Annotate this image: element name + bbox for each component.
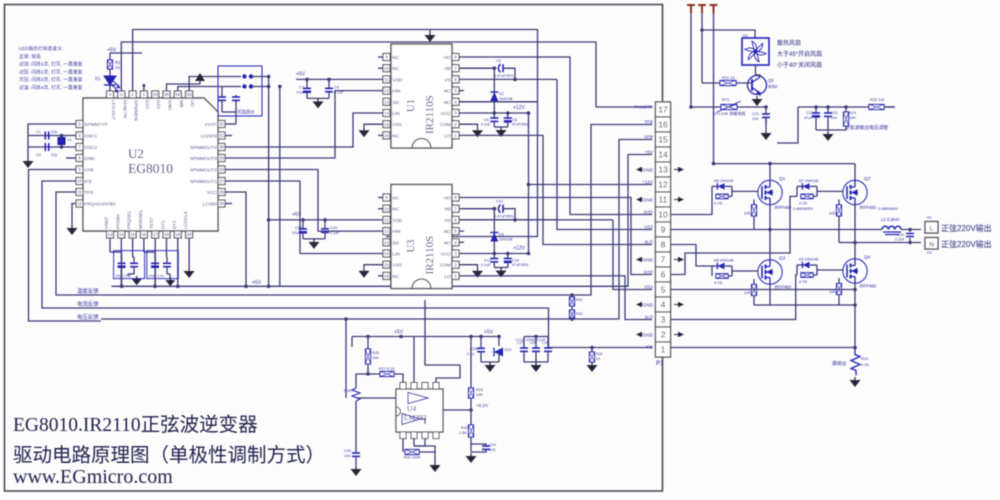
- wire U3 VB: [459, 208, 494, 210]
- capacitor C10 bootstrap 0.47uF: [494, 208, 496, 210]
- svg-text:COM: COM: [440, 263, 451, 268]
- svg-text:4.7Ω: 4.7Ω: [799, 280, 807, 284]
- svg-text:14: 14: [658, 150, 668, 160]
- svg-text:2HO: 2HO: [644, 209, 654, 214]
- connector P1 pin 16 TFB: [656, 117, 671, 132]
- svg-text:C1: C1: [36, 130, 41, 134]
- wire IFB to shunt: [671, 347, 855, 349]
- capacitor box B2: [147, 251, 179, 279]
- svg-text:TFB: TFB: [85, 190, 94, 195]
- wire U4 output right: [443, 409, 471, 411]
- svg-text:22p: 22p: [51, 153, 57, 157]
- resistor R16 10K: [753, 199, 755, 205]
- terminal P3 N: [925, 238, 938, 250]
- connector P1 pin 15 VFB: [656, 132, 671, 147]
- wire caps to ground rail: [28, 136, 45, 159]
- U4 comparator A triangle: [408, 393, 428, 404]
- svg-text:NC: NC: [393, 55, 400, 60]
- svg-text:LCDEN: LCDEN: [201, 134, 217, 139]
- svg-text:正弦220V输出: 正弦220V输出: [941, 223, 992, 233]
- connector P1 pin 1 IFB: [656, 342, 671, 357]
- U2 top pin UO: [186, 91, 193, 98]
- U2 right pin VCC: [218, 189, 225, 196]
- wire T2 to fan: [702, 30, 755, 38]
- svg-text:HIN: HIN: [393, 89, 401, 94]
- wire +5V column down: [268, 77, 270, 287]
- wire SPWMOUT3 to U1 HIN: [225, 91, 383, 158]
- connector P1 pin 6 1HO: [656, 267, 671, 282]
- svg-text:4: 4: [661, 300, 666, 310]
- svg-text:P2: P2: [927, 216, 932, 220]
- svg-text:32: 32: [219, 122, 224, 127]
- svg-text:LIN: LIN: [393, 111, 400, 116]
- svg-text:3: 3: [661, 315, 666, 325]
- svg-text:11: 11: [659, 195, 668, 205]
- U2 right pin LCDEN: [218, 132, 225, 139]
- U2 right pin LCDDI: [218, 200, 225, 207]
- wire TFB loop: [56, 192, 101, 295]
- wire voltage feedback to P1 pin15: [101, 140, 652, 320]
- diode D10 TL431: [498, 337, 500, 347]
- svg-text:15: 15: [384, 122, 389, 127]
- U2 bottom pin MODSEL: [140, 231, 147, 238]
- wire ref group bottom: [481, 361, 499, 363]
- svg-text:10K: 10K: [878, 98, 885, 102]
- capacitor C15 0.1uF: [324, 220, 326, 229]
- svg-text:C24: C24: [489, 443, 496, 447]
- svg-text:0.46R/600V: 0.46R/600V: [878, 207, 899, 211]
- svg-text:C20: C20: [897, 233, 904, 237]
- svg-text:C12: C12: [484, 259, 491, 263]
- svg-text:4.7Ω: 4.7Ω: [714, 281, 722, 285]
- svg-text:25: 25: [219, 201, 224, 206]
- jumper JP1: [242, 84, 253, 88]
- U3 right pin VCC: [452, 250, 459, 257]
- wire U1 VSS to ground: [364, 124, 383, 127]
- svg-text:IRFP460: IRFP460: [775, 285, 792, 290]
- wire U4 left bias: [356, 397, 396, 399]
- wire R30 down: [470, 437, 472, 452]
- transistor Q1 IRFP460: [758, 180, 782, 204]
- transistor Q3 IRFP460: [758, 260, 782, 284]
- svg-text:10uF: 10uF: [296, 90, 305, 94]
- svg-text:SPWMOUT4: SPWMOUT4: [190, 145, 217, 150]
- resistor R29 10K pullup: [470, 337, 472, 389]
- svg-text:WB: WB: [179, 100, 184, 107]
- wire R11 to base: [736, 83, 752, 85]
- svg-text:0.1R: 0.1R: [861, 363, 869, 367]
- wire SPWMOUT1 to U3 LIN: [225, 181, 383, 254]
- svg-text:DT1: DT1: [161, 220, 166, 229]
- svg-text:IFB: IFB: [85, 179, 92, 184]
- svg-text:SPWMEN: SPWMEN: [134, 100, 139, 121]
- diode D9 1N4148: [796, 265, 798, 275]
- ground U4 right: [470, 453, 472, 456]
- svg-text:N: N: [929, 242, 934, 249]
- IC U1 IR2110S body: [391, 44, 452, 148]
- svg-text:D8 1N4148: D8 1N4148: [714, 259, 733, 263]
- svg-text:EG8010: EG8010: [128, 161, 173, 176]
- wire divider tap left: [356, 374, 368, 388]
- U4 top pin: [400, 383, 406, 390]
- capacitor C1 22p: [45, 132, 48, 140]
- svg-text:1N4148: 1N4148: [499, 97, 512, 101]
- diode D6 1N4148: [711, 186, 713, 196]
- svg-text:30: 30: [219, 145, 224, 150]
- U3 left pin NC: [383, 272, 390, 279]
- svg-text:+12V: +12V: [513, 105, 525, 111]
- svg-text:R27 5.1K: R27 5.1K: [379, 367, 395, 371]
- diode D7 1N4148: [796, 186, 798, 196]
- svg-text:19: 19: [175, 232, 180, 237]
- ground Q5: [756, 96, 758, 99]
- svg-text:1.5K: 1.5K: [459, 431, 467, 435]
- U1 right pin VS: [452, 76, 459, 83]
- wire Q2 drain: [854, 164, 856, 180]
- U3 right pin LO: [452, 272, 459, 279]
- svg-text:FANCTR: FANCTR: [122, 100, 127, 119]
- wire T3 down to drain bus: [713, 13, 715, 164]
- svg-text:VB: VB: [444, 207, 450, 212]
- svg-text:10: 10: [77, 179, 82, 184]
- svg-text:HIN: HIN: [393, 229, 401, 234]
- wire P1 pin5 to Q4 source: [671, 289, 855, 291]
- wire R31 to ground: [419, 452, 435, 462]
- resistor R11 1K: [720, 81, 736, 86]
- wire U1 VCC +12V node: [459, 112, 529, 114]
- U1 right pin LO: [452, 132, 459, 139]
- svg-text:SPWMOUT3: SPWMOUT3: [190, 156, 217, 161]
- svg-text:D10: D10: [505, 348, 512, 352]
- svg-text:+5V: +5V: [252, 280, 262, 286]
- svg-text:NC: NC: [393, 66, 400, 71]
- capacitor C24 103: [471, 444, 486, 446]
- ground OSC rail: [27, 158, 29, 161]
- svg-text:10K: 10K: [744, 211, 751, 215]
- svg-text:Q5: Q5: [768, 78, 774, 83]
- wire Q2 source to Q4 drain: [854, 205, 856, 259]
- capacitor C29 group: [547, 337, 549, 349]
- wire OSC1: [44, 135, 76, 137]
- wire U3 VS vertical to P1 pin5: [613, 220, 652, 290]
- svg-text:OSC1: OSC1: [85, 134, 98, 139]
- connector P1 pin 17 FANCTR: [656, 102, 671, 117]
- U3 left pin VDD: [383, 216, 390, 223]
- U2 left pin OSC2: [76, 144, 83, 151]
- svg-text:C25: C25: [344, 449, 351, 453]
- wire GZ1 stub: [143, 86, 145, 92]
- U4 bottom pin: [422, 432, 428, 439]
- svg-text:8050: 8050: [768, 84, 778, 89]
- svg-text:34: 34: [175, 92, 180, 97]
- U2 right pin SPWMOUT4: [218, 144, 225, 151]
- wire left bias chain: [355, 420, 357, 453]
- resistor R30 1.5K: [469, 425, 474, 437]
- wire SPWMEN / SD line: [133, 30, 538, 237]
- ground stub on SD line: [429, 30, 431, 33]
- resistor R23 shunt constantan: [851, 348, 860, 376]
- svg-text:DT2: DT2: [172, 220, 177, 229]
- svg-text:IR2110S: IR2110S: [424, 95, 436, 134]
- svg-text:VCC: VCC: [441, 111, 451, 116]
- wire Q5 collector: [756, 75, 761, 77]
- wire Q5 emitter to ground: [759, 93, 761, 96]
- svg-text:9: 9: [661, 225, 666, 235]
- svg-text:22p: 22p: [51, 130, 57, 134]
- connector P1 pin 10 2HO: [656, 207, 671, 222]
- ground ref group: [489, 362, 491, 365]
- ground box B1: [136, 276, 138, 279]
- svg-text:7: 7: [661, 255, 666, 265]
- svg-text:10K: 10K: [372, 356, 379, 360]
- connector P1 pin 5 VS1: [656, 282, 671, 297]
- svg-text:HO: HO: [444, 196, 451, 201]
- svg-text:31: 31: [219, 133, 224, 138]
- wire pin UO to JP2: [189, 77, 241, 92]
- U2 bottom pin VREF: [107, 231, 114, 238]
- wire R18 to source rail: [754, 304, 770, 306]
- U2 left pin SPWMTYP: [76, 121, 83, 128]
- svg-text:47uF: 47uF: [804, 116, 813, 120]
- wire GND pin stub: [66, 157, 76, 159]
- svg-text:过压: 闪烁2次, 灯灭, 一直重复: 过压: 闪烁2次, 灯灭, 一直重复: [19, 68, 83, 75]
- resistor R34 pulldown IFB: [591, 348, 593, 353]
- wire sense rail: [798, 106, 895, 108]
- resistor R33 divider: [570, 310, 575, 319]
- svg-text:1: 1: [661, 345, 666, 355]
- svg-text:C9: C9: [334, 85, 339, 89]
- ground U4 bottom: [434, 462, 436, 465]
- U4 top pin: [433, 383, 439, 390]
- svg-text:GND: GND: [168, 100, 173, 111]
- U3 left pin NC: [383, 205, 390, 212]
- diode D8 1N4148: [711, 266, 713, 276]
- U2 left pin FRQADJ/VFB2: [76, 200, 83, 207]
- wire U1 HO to P1 pin10: [459, 57, 652, 215]
- svg-text:R30: R30: [461, 426, 468, 430]
- wire P1 pin10 to Q1 gate network: [671, 196, 712, 214]
- connector P1 pin 4 GND: [656, 297, 671, 312]
- svg-text:14: 14: [384, 251, 389, 256]
- IC U4 LM393 body: [396, 389, 443, 432]
- resistor R28 5.1K: [352, 388, 360, 401]
- svg-text:U4: U4: [407, 404, 416, 413]
- svg-text:28: 28: [219, 167, 224, 172]
- connector P1 pin 9 VS2: [656, 222, 671, 237]
- svg-text:NC: NC: [393, 207, 400, 212]
- wire U3 HO to P1 pin6: [459, 198, 652, 275]
- U4 top pin: [422, 383, 428, 390]
- capacitor C23 104: [827, 107, 829, 113]
- svg-text:GND: GND: [643, 302, 654, 307]
- svg-text:16: 16: [658, 120, 668, 130]
- svg-text:17: 17: [153, 232, 158, 237]
- U2 top pin GZ2: [152, 91, 159, 98]
- svg-text:C14: C14: [512, 259, 519, 263]
- svg-text:10: 10: [384, 206, 389, 211]
- U4 bottom pin: [411, 432, 417, 439]
- svg-text:0.1uF: 0.1uF: [481, 123, 491, 127]
- svg-text:C10: C10: [496, 200, 503, 204]
- svg-text:47uF/50V: 47uF/50V: [512, 263, 529, 267]
- svg-text:C21: C21: [752, 112, 759, 116]
- U3 left pin VSS: [383, 261, 390, 268]
- svg-text:IR2110S: IR2110S: [424, 236, 436, 275]
- wire caps bottom rail: [816, 129, 846, 131]
- wire comparator B output: [420, 419, 425, 424]
- svg-text:SD: SD: [393, 240, 400, 245]
- svg-text:IRFP460: IRFP460: [775, 205, 792, 210]
- wire Q1 drain: [769, 164, 771, 180]
- U1 right pin NC: [452, 98, 459, 105]
- svg-text:L: L: [930, 226, 934, 233]
- svg-text:GND: GND: [643, 167, 654, 172]
- svg-text:+12V: +12V: [642, 179, 654, 184]
- wire U1 VS: [459, 78, 557, 80]
- U1 left pin VSS: [383, 121, 390, 128]
- wire current feedback to P1 pin1: [101, 308, 652, 348]
- U1 left pin SD: [383, 98, 390, 105]
- terminal T1 BUS+: [687, 5, 695, 13]
- capacitor C14 47uF: [507, 254, 509, 259]
- ground U1 VSS: [363, 127, 365, 130]
- connector P1 pin 13 GND: [656, 162, 671, 177]
- svg-text:VDD: VDD: [393, 218, 403, 223]
- svg-text:0.1uF: 0.1uF: [330, 231, 340, 235]
- wire caps bottom: [524, 361, 548, 363]
- svg-text:NC: NC: [393, 133, 400, 138]
- svg-text:104: 104: [752, 117, 758, 121]
- U3 left pin HIN: [383, 228, 390, 235]
- wire +5V bus to P1 pin14: [112, 155, 653, 287]
- svg-text:D6 1N4148: D6 1N4148: [714, 179, 733, 183]
- svg-text:8: 8: [661, 240, 666, 250]
- svg-text:C22: C22: [806, 111, 813, 115]
- svg-text:VS: VS: [444, 218, 450, 223]
- svg-text:LCDDI: LCDDI: [203, 202, 217, 207]
- U1 left pin NC: [383, 65, 390, 72]
- svg-text:10: 10: [658, 210, 668, 220]
- resistor R17 4.7R: [716, 274, 728, 279]
- svg-text:Q4: Q4: [864, 255, 871, 260]
- U2 left pin OSC1: [76, 132, 83, 139]
- resistor R21 4.7R: [801, 273, 813, 278]
- ground FRQADJ: [71, 225, 73, 228]
- svg-text:C5: C5: [496, 59, 501, 63]
- ground U3 VSS: [363, 268, 365, 271]
- wire R25 stub: [884, 106, 895, 108]
- svg-text:IFB: IFB: [646, 344, 653, 349]
- svg-text:VFB: VFB: [644, 134, 653, 139]
- svg-text:C23: C23: [831, 111, 838, 115]
- wire U3 VSS to ground: [364, 265, 383, 268]
- wire U4 bottom pins: [402, 439, 404, 453]
- svg-text:104: 104: [344, 454, 350, 458]
- ground U4 left: [355, 466, 357, 469]
- svg-text:11: 11: [384, 218, 389, 223]
- svg-text:1K: 1K: [596, 357, 601, 361]
- svg-text:GND: GND: [643, 197, 654, 202]
- U2 left pin GND: [76, 155, 83, 162]
- U4 top pin: [411, 383, 417, 390]
- svg-text:+8.2V: +8.2V: [476, 403, 489, 408]
- svg-text:R32: R32: [576, 298, 582, 302]
- svg-text:13: 13: [108, 232, 113, 237]
- wire R1 to D1: [109, 69, 111, 76]
- svg-text:GZ1: GZ1: [145, 100, 150, 109]
- U4 bottom pin: [433, 432, 439, 439]
- svg-text:+5V: +5V: [484, 330, 494, 336]
- wire temperature feedback to P1 pin16: [101, 125, 652, 296]
- svg-text:29: 29: [219, 156, 224, 161]
- svg-text:D2: D2: [499, 92, 504, 96]
- wire SPWMTYP to ground rail: [28, 124, 76, 136]
- wire U1 LO to P1 pin8: [459, 135, 652, 244]
- wire LCDEN stub: [225, 135, 232, 137]
- wire T2 to base resistor: [702, 82, 720, 84]
- connector P1 pin 2 GND: [656, 327, 671, 342]
- wire U3 COM to ground: [459, 265, 478, 268]
- svg-text:VCC: VCC: [207, 190, 217, 195]
- IC U2 EG8010 body: [83, 98, 218, 231]
- svg-text:VFB: VFB: [85, 168, 94, 173]
- ground U3 VDD caps: [313, 239, 315, 242]
- svg-text:0.47uF/50V: 0.47uF/50V: [494, 215, 514, 219]
- svg-text:+12V: +12V: [513, 246, 525, 252]
- wire RT1 to C21: [737, 106, 766, 108]
- svg-text:PFDBK: PFDBK: [115, 213, 120, 229]
- U4 comparator B triangle: [402, 414, 420, 425]
- svg-text:+5V: +5V: [292, 212, 302, 218]
- U2 left pin IFB: [76, 178, 83, 185]
- connector P1 pin 3 1LO: [656, 312, 671, 327]
- wire gate R19: [817, 190, 844, 192]
- svg-text:IRFP460: IRFP460: [860, 284, 877, 289]
- U1 right pin NC: [452, 87, 459, 94]
- module optional section box: [218, 66, 262, 116]
- svg-text:HO: HO: [444, 55, 451, 60]
- transistor Q4 IRFP460: [843, 259, 867, 283]
- svg-text:104: 104: [831, 116, 837, 120]
- svg-text:NC: NC: [444, 240, 451, 245]
- U1 right pin HO: [452, 54, 459, 61]
- U3 right pin NC: [452, 228, 459, 235]
- U4 bottom pin: [400, 432, 406, 439]
- connector P1 pin 14 +5V: [656, 147, 671, 162]
- svg-text:13: 13: [384, 99, 389, 104]
- resistor R24: [845, 107, 847, 112]
- wire +5V rail U4: [352, 336, 499, 338]
- svg-text:Q2: Q2: [864, 176, 871, 181]
- svg-text:C15: C15: [330, 226, 337, 230]
- svg-text:Q1: Q1: [779, 176, 786, 181]
- diode D2 bootstrap: [493, 68, 495, 102]
- svg-text:U1: U1: [406, 99, 417, 112]
- svg-text:20: 20: [187, 232, 192, 237]
- svg-text:14: 14: [119, 232, 124, 237]
- wire Q4 source down: [854, 284, 856, 348]
- svg-text:R28: R28: [344, 389, 351, 393]
- svg-text:电流反馈: 电流反馈: [77, 300, 99, 308]
- capacitor C25 104: [352, 452, 360, 454]
- capacitor C2 22p: [45, 143, 48, 151]
- ground U1 COM: [477, 127, 479, 130]
- svg-text:11: 11: [77, 190, 82, 195]
- svg-text:C2: C2: [36, 153, 41, 157]
- svg-text:1HO: 1HO: [644, 269, 654, 274]
- svg-text:过流: 闪烁1次, 灯灭, 一直重复: 过流: 闪烁1次, 灯灭, 一直重复: [19, 61, 83, 68]
- svg-text:1K: 1K: [115, 65, 120, 70]
